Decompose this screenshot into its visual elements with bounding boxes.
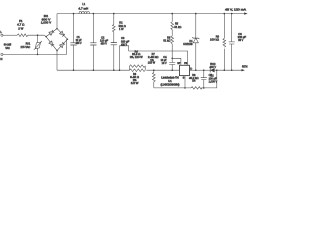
- capacitor C4: [169, 58, 175, 70]
- resistor R8: [191, 87, 202, 90]
- bridge rectifier BR1: [45, 28, 68, 51]
- svg-text:1/10 W: 1/10 W: [148, 61, 156, 65]
- wire bottom rail right: [196, 69, 210, 71]
- wire varistor top lead: [37, 35, 39, 42]
- wire BP branch: [172, 58, 181, 65]
- wire L input: [3, 34, 17, 36]
- terminal N: [1, 53, 3, 55]
- svg-text:51 kΩ: 51 kΩ: [174, 25, 181, 29]
- svg-text:1%: 1%: [192, 79, 196, 83]
- svg-text:1,000 V: 1,000 V: [209, 80, 218, 84]
- svg-text:48 V, 120 mA: 48 V, 120 mA: [225, 8, 246, 12]
- wire source loop bottom: [154, 87, 191, 89]
- node FB divider junction: [171, 58, 173, 60]
- capacitor C1: [73, 13, 75, 15]
- node output RTN arrow: [242, 69, 245, 71]
- svg-text:4.7 mH: 4.7 mH: [78, 6, 88, 10]
- svg-text:100 kΩ: 100 kΩ: [210, 38, 219, 42]
- capacitor C3: [111, 43, 117, 45]
- resistor R6: [171, 36, 174, 44]
- wire N rail: [3, 39, 67, 54]
- wire bottom rail mid: [146, 69, 179, 71]
- wire varistor bottom lead: [37, 48, 39, 54]
- wire bridge top riser: [56, 14, 58, 29]
- svg-text:L1: L1: [82, 2, 85, 6]
- wire bottom rail left: [57, 69, 130, 71]
- svg-text:400 V: 400 V: [210, 65, 217, 69]
- varistor RV1: [35, 42, 40, 49]
- node junction varistor top: [37, 34, 39, 36]
- svg-text:450 V: 450 V: [101, 42, 107, 46]
- resistor R2: [113, 13, 115, 15]
- wire to bridge: [28, 35, 47, 37]
- node output arrow +: [244, 12, 247, 14]
- svg-text:D2: D2: [210, 73, 214, 77]
- svg-text:UDZ15B: UDZ15B: [183, 42, 193, 46]
- resistor R7: [153, 69, 155, 71]
- svg-text:2 W: 2 W: [18, 27, 23, 31]
- svg-text:D: D: [190, 67, 192, 70]
- capacitor C6: [231, 13, 233, 15]
- svg-text:1/2 W: 1/2 W: [131, 81, 139, 85]
- svg-text:(LNK306GN): (LNK306GN): [161, 82, 180, 86]
- wire D pin: [189, 69, 196, 71]
- svg-text:1%, 1/10 W: 1%, 1/10 W: [130, 55, 143, 59]
- svg-text:FB: FB: [184, 62, 187, 65]
- svg-text:51 kΩ: 51 kΩ: [163, 38, 170, 42]
- capacitor C2: [93, 13, 95, 15]
- capacitor C5: [203, 69, 205, 71]
- resistor R4 shunt upper: [130, 65, 146, 70]
- wire top rail: [57, 13, 246, 15]
- resistor F1: [17, 34, 28, 37]
- terminal L: [1, 34, 3, 36]
- wire bridge bottom column to bottom rail: [56, 51, 58, 70]
- node junction varistor bottom: [37, 54, 39, 56]
- wire S pin: [184, 76, 186, 88]
- svg-text:S: S: [183, 76, 185, 79]
- svg-text:275 VAC: 275 VAC: [21, 45, 31, 49]
- resistor R5: [171, 13, 173, 15]
- svg-text:1,000 V: 1,000 V: [41, 21, 51, 25]
- diode D2: [209, 68, 211, 72]
- svg-text:450 V: 450 V: [76, 41, 82, 45]
- svg-text:1 W: 1 W: [119, 27, 124, 31]
- svg-text:63 V: 63 V: [238, 38, 243, 42]
- wire feedback tap riser: [119, 69, 121, 71]
- svg-text:L: L: [0, 30, 2, 34]
- op-amp U1 LinkSwitch-TN: [180, 65, 190, 75]
- zener diode D1: [195, 13, 197, 15]
- svg-text:N: N: [0, 57, 2, 61]
- svg-text:BP: BP: [177, 62, 180, 65]
- resistor R3 shunt lower: [130, 69, 146, 72]
- svg-text:VAC: VAC: [5, 46, 10, 50]
- svg-text:RTN: RTN: [242, 64, 248, 68]
- svg-text:16 V: 16 V: [162, 61, 167, 65]
- inductor L1: [79, 11, 89, 13]
- resistor R9: [224, 13, 226, 15]
